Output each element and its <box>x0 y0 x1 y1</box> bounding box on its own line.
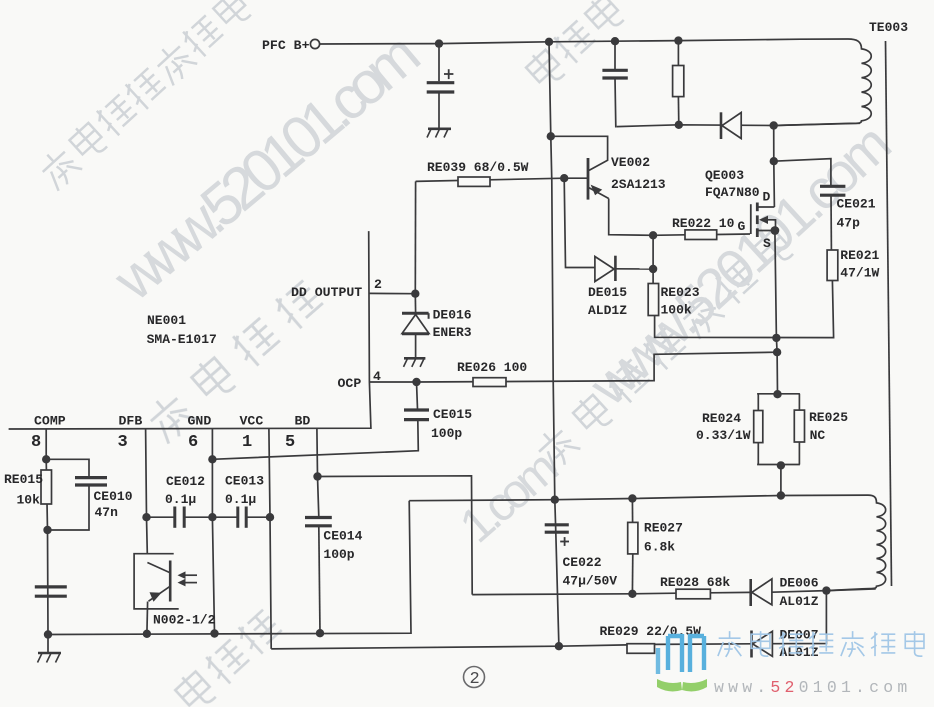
resistor RE027 body <box>628 499 638 594</box>
ground symbol rail left <box>38 635 62 663</box>
svg-text:47/1W: 47/1W <box>840 266 879 281</box>
node snubber resistor bottom <box>675 121 683 129</box>
PFC B+ terminal <box>310 39 319 48</box>
wire RE029 to DE007 <box>655 643 751 646</box>
resistor RE022 body <box>685 230 717 240</box>
wire aux bottom to coil <box>826 589 875 591</box>
svg-text:CE015: CE015 <box>433 407 472 422</box>
diode clamp (unlabeled) <box>721 112 741 139</box>
svg-text:RE025: RE025 <box>809 410 848 425</box>
svg-text:S: S <box>763 236 771 251</box>
svg-text:PFC B+: PFC B+ <box>262 38 310 53</box>
ground below bulk cap <box>427 129 451 138</box>
logo bottom right <box>657 631 924 697</box>
node GND caps <box>208 513 216 521</box>
svg-text:8: 8 <box>31 433 41 452</box>
wire OCP sense line <box>369 352 777 382</box>
svg-text:10k: 10k <box>17 493 41 508</box>
node OCP line junction <box>773 348 781 356</box>
svg-text:100p: 100p <box>323 547 354 562</box>
resistor RE023 body <box>648 235 658 315</box>
node gate drive junction <box>649 231 657 239</box>
svg-text:2SA1213: 2SA1213 <box>611 177 666 192</box>
svg-text:CE022: CE022 <box>563 555 602 570</box>
svg-text:RE022 10: RE022 10 <box>672 216 735 231</box>
svg-text:6: 6 <box>188 433 198 452</box>
resistor RE021 body <box>827 250 838 281</box>
node QE003 source <box>771 226 780 235</box>
svg-text:100k: 100k <box>661 303 692 318</box>
transformer TE003 aux winding <box>826 495 885 590</box>
capacitor CE012 <box>147 507 213 528</box>
svg-text:RE023: RE023 <box>661 285 700 300</box>
wire COMP pin column <box>46 429 48 635</box>
transistor VE002 2SA1213 <box>588 158 609 200</box>
node top rail at bulk cap <box>435 39 443 47</box>
node CE014 at rail <box>316 629 324 637</box>
svg-text:ENER3: ENER3 <box>433 325 472 340</box>
svg-text:CE013: CE013 <box>225 474 264 489</box>
svg-text:FQA7N80: FQA7N80 <box>705 185 760 200</box>
ground below DE016 <box>404 358 426 367</box>
svg-text:RE021: RE021 <box>840 248 879 263</box>
svg-text:RE039 68/0.5W: RE039 68/0.5W <box>427 160 529 175</box>
wire VCC supply line RE029 <box>271 645 627 649</box>
svg-text:DFB: DFB <box>119 414 143 429</box>
resistor RE015 body <box>41 470 52 504</box>
svg-text:1: 1 <box>242 433 252 452</box>
wire RE039 to base <box>416 178 565 181</box>
wm row top-left CJK <box>35 0 253 192</box>
node RE027 bottom <box>628 590 636 598</box>
svg-text:D: D <box>763 190 771 205</box>
resistor RE028 body <box>676 589 710 599</box>
node long column emitter branch <box>547 132 555 140</box>
wire BD sense line RE028 <box>472 593 676 594</box>
resistor snubber (unlabeled) <box>673 41 684 125</box>
wire DFB pin column <box>146 429 148 554</box>
capacitor snubber (unlabeled) <box>602 41 627 126</box>
wm row bottom partial CJK <box>172 606 285 707</box>
svg-text:CE021: CE021 <box>837 197 876 212</box>
svg-text:0.1μ: 0.1μ <box>165 492 196 507</box>
wire source column <box>775 231 778 395</box>
node return at CE022 <box>551 496 559 504</box>
svg-text:N002-1/2: N002-1/2 <box>153 613 216 628</box>
svg-text:0.33/1W: 0.33/1W <box>696 428 751 443</box>
IC NE001 outline <box>9 231 371 429</box>
wire VE002 collector down <box>609 199 653 236</box>
svg-text:RE029 22/0.5W: RE029 22/0.5W <box>600 624 702 639</box>
svg-text:TE003: TE003 <box>869 20 908 35</box>
wm row mid CJK partial <box>143 277 327 445</box>
node return at RE024 <box>777 491 785 499</box>
diode DE006 AL01Z <box>751 579 827 606</box>
svg-text:2: 2 <box>374 277 382 292</box>
node base junction <box>560 174 568 182</box>
wire gate <box>653 234 685 237</box>
node BD branch <box>313 472 321 480</box>
wire drain column <box>773 126 776 208</box>
svg-text:www.520101.com: www.520101.com <box>101 22 431 314</box>
transistor QE003 FQA7N80 MOSFET <box>751 203 776 238</box>
node pin2 junction <box>411 290 419 298</box>
node GND at rail <box>210 629 218 637</box>
node VCC line at CE022 <box>555 642 563 650</box>
svg-text:47μ/50V: 47μ/50V <box>563 574 618 589</box>
svg-text:47n: 47n <box>95 505 119 520</box>
page number circled 2 <box>464 667 485 688</box>
svg-text:CE014: CE014 <box>323 529 362 544</box>
svg-text:QE003: QE003 <box>705 168 744 183</box>
wire VE002 base <box>564 177 588 179</box>
svg-text:100p: 100p <box>431 426 462 441</box>
wire CE021 branch <box>774 159 831 185</box>
node VCC caps <box>266 513 274 521</box>
node drain at clamp line <box>770 121 778 129</box>
wire emitter branch to VE002 <box>551 136 608 170</box>
wire ground rail <box>48 501 411 635</box>
node return at RE027 <box>628 494 636 502</box>
svg-text:VCC: VCC <box>240 414 264 429</box>
svg-text:5: 5 <box>285 433 295 452</box>
resistor RE029 body <box>627 644 655 654</box>
wire secondary return line <box>409 495 868 501</box>
wire RE022 to gate bar <box>717 233 750 236</box>
svg-text:G: G <box>738 219 746 234</box>
wire VCC pin column <box>269 429 271 649</box>
node OCP at CE015 <box>412 378 420 386</box>
svg-text:ALD1Z: ALD1Z <box>588 303 627 318</box>
wire BD pin column <box>317 429 319 517</box>
svg-text:3: 3 <box>118 433 128 452</box>
svg-text:RE028 68k: RE028 68k <box>660 575 730 590</box>
diode DE015 ALD1Z <box>564 178 653 281</box>
svg-text:DE016: DE016 <box>433 308 472 323</box>
transformer TE003 core <box>886 41 892 586</box>
zener DE016 ENER3 <box>402 294 429 358</box>
node opto emitter at rail <box>143 630 151 638</box>
capacitor CE013 <box>212 507 270 528</box>
svg-text:CE010: CE010 <box>94 489 133 504</box>
svg-text:SMA-E1017: SMA-E1017 <box>147 332 217 347</box>
svg-text:0.1μ: 0.1μ <box>225 492 256 507</box>
logo blue book icon <box>658 634 704 674</box>
svg-text:NC: NC <box>810 428 826 443</box>
node top rail at long column <box>545 38 553 46</box>
wire GND pin column <box>212 429 214 633</box>
resistor RE026 body <box>473 378 506 387</box>
wire RE028 to DE006 <box>710 591 749 593</box>
transformer TE003 primary winding <box>774 39 872 126</box>
wire RE039 column to pin2 <box>414 181 416 293</box>
diode DE007 AL01Z <box>752 591 827 658</box>
node COMP bottom <box>43 526 51 534</box>
wire RE021 bottom <box>655 281 834 338</box>
resistor RE039 body <box>458 177 490 186</box>
capacitor comp (unlabeled) <box>35 587 67 596</box>
svg-text:6.8k: 6.8k <box>644 540 675 555</box>
wm row top-center CJK partial <box>523 0 625 90</box>
wire pin 2 DD OUTPUT <box>369 292 415 294</box>
node aux winding bottom junction <box>822 586 830 594</box>
svg-text:COMP: COMP <box>34 414 66 429</box>
capacitor CE010 branch <box>46 459 107 530</box>
node top rail at snubber resistor <box>674 36 682 44</box>
node DFB caps <box>142 513 150 521</box>
node drain at CE021 branch <box>770 157 778 165</box>
node DE015 to RE023 <box>649 265 657 273</box>
wm row right CJK <box>531 226 795 472</box>
capacitor bulk electrolytic (unlabeled) <box>427 44 455 128</box>
node RE024 top <box>773 390 781 398</box>
capacitor CE021 <box>820 186 845 250</box>
node top rail at snubber cap <box>611 37 619 45</box>
wire BD sense branch <box>318 476 473 595</box>
node COMP top <box>42 455 50 463</box>
wire top rail B+ <box>320 39 848 44</box>
svg-text:AL01Z: AL01Z <box>780 594 819 609</box>
resistor RE024 0.33/1W and RE025 NC pair <box>754 394 805 496</box>
svg-text:RE015: RE015 <box>4 472 43 487</box>
capacitor CE014 <box>305 518 332 634</box>
svg-text:OCP: OCP <box>338 376 362 391</box>
svg-text:GND: GND <box>188 414 212 429</box>
svg-text:2: 2 <box>470 670 480 689</box>
svg-text:VE002: VE002 <box>611 155 650 170</box>
node GND at CE015 return <box>208 455 216 463</box>
svg-text:1.com: 1.com <box>450 443 566 554</box>
svg-text:RE027: RE027 <box>644 521 683 536</box>
node source sense top <box>772 334 780 342</box>
svg-text:DE006: DE006 <box>780 576 819 591</box>
svg-text:RE026 100: RE026 100 <box>457 360 527 375</box>
logo calligraphy chars <box>718 631 924 657</box>
svg-text:BD: BD <box>295 414 311 429</box>
wire snubber bottom line <box>617 123 860 126</box>
wire long column B+ to VCC rail <box>549 42 559 646</box>
node RE024 bottom <box>777 461 785 469</box>
svg-text:www.520101.com: www.520101.com <box>714 678 911 697</box>
optocoupler N002-1/2 <box>134 554 197 634</box>
svg-text:CE012: CE012 <box>166 474 205 489</box>
node ground rail left <box>44 630 52 638</box>
svg-text:NE001: NE001 <box>147 313 186 328</box>
svg-text:DE015: DE015 <box>588 285 627 300</box>
logo green open book <box>657 679 707 691</box>
svg-text:DD OUTPUT: DD OUTPUT <box>291 285 362 300</box>
svg-text:47p: 47p <box>837 216 861 231</box>
svg-text:RE024: RE024 <box>702 411 741 426</box>
capacitor CE022 47u/50V <box>545 525 569 546</box>
capacitor CE015 <box>212 382 429 459</box>
svg-text:4: 4 <box>373 369 381 384</box>
